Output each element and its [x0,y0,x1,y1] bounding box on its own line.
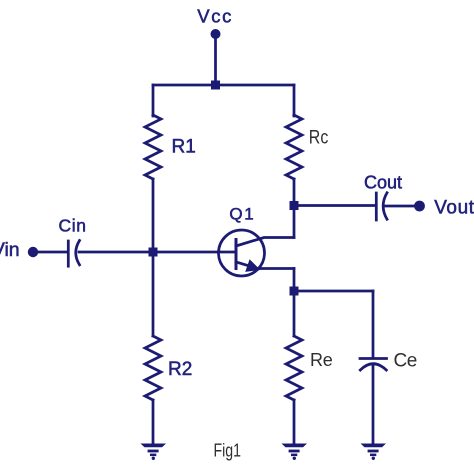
transistor Q1 emitter diagonal [236,262,252,267]
node terminal Vout dot [414,201,425,212]
wire rail to Rc [293,85,296,116]
wire Re to ground [293,400,296,444]
wire input terminal to Cin [38,251,68,254]
transistor Q1 base bar [235,240,238,269]
node junction collector [290,201,299,210]
wire Ce branch down to Ce [372,291,375,358]
svg-text:Cout: Cout [364,172,402,192]
svg-text:Rc: Rc [309,127,329,148]
wire top rail [153,84,294,87]
ground for R2 [141,444,167,460]
svg-text:Re: Re [310,350,333,370]
capacitor Cout curved plate [383,193,387,219]
capacitor Cin curved plate [76,241,80,265]
capacitor Ce plate [360,357,387,360]
transistor Q1 emitter arrow [245,259,260,272]
node junction emitter [290,287,299,296]
transistor Q1 circle [219,230,265,276]
capacitor Cin plate [67,241,70,266]
svg-text:Fig1: Fig1 [214,440,242,460]
wire R2 to ground [152,400,155,444]
node terminal Vcc dot [211,29,221,39]
svg-text:R1: R1 [172,136,196,157]
wire emitter horizontal [257,267,294,270]
wire emitter corner to emitter node [293,269,296,337]
wire emitter node to Ce branch [294,290,373,293]
node terminal Vin dot [28,247,38,257]
resistor R2 [145,336,161,400]
wire base node to R2 [152,252,155,336]
resistor Rc [286,115,302,179]
wire Rc to collector corner [293,179,296,238]
svg-text:Q1: Q1 [229,204,255,223]
capacitor Ce curved plate [360,364,386,370]
svg-text:Ce: Ce [394,350,417,371]
svg-text:Cin: Cin [59,216,87,236]
wire Cin to base and transistor [79,251,235,254]
wire Ce to ground [372,366,375,444]
wire Vcc stem [214,36,217,85]
ground for Ce [361,444,387,460]
wire rail to R1 [152,85,155,116]
svg-text:Vin: Vin [0,239,20,261]
svg-text:Vout: Vout [434,198,474,219]
node junction rail [211,81,220,90]
capacitor Cout plate [375,193,378,220]
resistor Re [286,336,302,400]
wire Cout to output terminal [385,205,415,208]
wire collector node to Cout [294,204,375,207]
wire collector horizontal and diagonal [236,238,294,247]
ground for Re [282,444,308,460]
node junction base [149,248,158,257]
svg-text:Vcc: Vcc [197,6,233,27]
svg-text:R2: R2 [168,359,192,380]
resistor R1 [145,115,161,179]
wire R1 to base node [152,179,155,252]
